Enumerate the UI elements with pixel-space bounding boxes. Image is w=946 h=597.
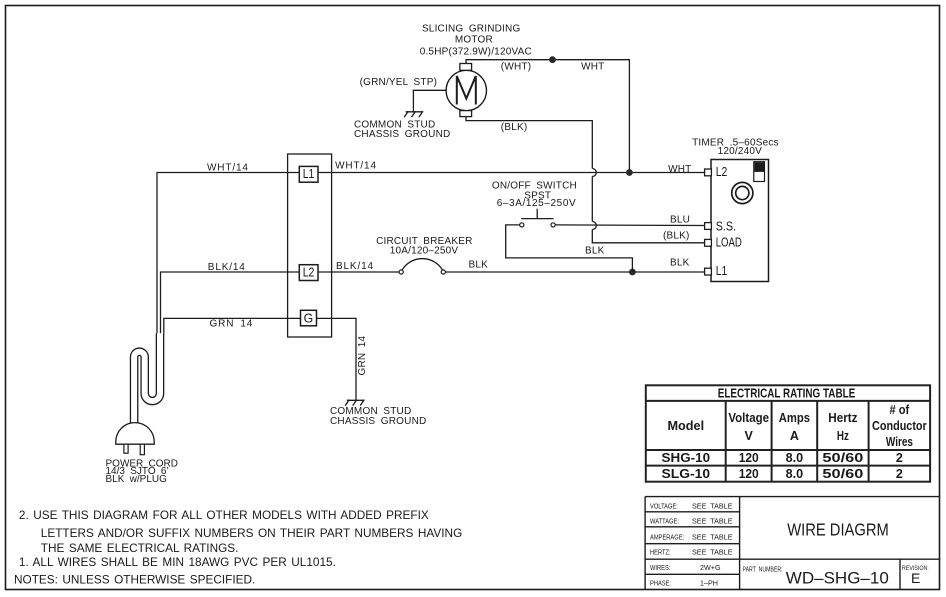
wire BLK/14 left (161, 272, 301, 333)
svg-text:BLK/14: BLK/14 (336, 261, 374, 272)
svg-text:1. ALL WIRES SHALL BE MIN 18AW: 1. ALL WIRES SHALL BE MIN 18AWG PVC PER … (19, 555, 336, 569)
circuit breaker CB1 (399, 259, 445, 275)
svg-text:120/240V: 120/240V (718, 146, 763, 157)
svg-text:0.5HP(372.9W)/120VAC: 0.5HP(372.9W)/120VAC (420, 46, 532, 57)
svg-text:SHG-10: SHG-10 (662, 451, 711, 465)
wire hop over WHT line (592, 169, 596, 177)
svg-text:Conductor: Conductor (872, 419, 927, 433)
circuit breaker labels (376, 236, 472, 257)
svg-text:SEE TABLE: SEE TABLE (692, 547, 733, 556)
svg-text:(WHT): (WHT) (501, 62, 531, 73)
svg-text:WD–SHG–10: WD–SHG–10 (786, 568, 889, 587)
svg-text:LOAD: LOAD (716, 236, 742, 250)
svg-text:SLICING GRINDING: SLICING GRINDING (422, 23, 521, 34)
svg-text:E: E (911, 570, 920, 586)
svg-text:PHASE:: PHASE: (650, 580, 671, 588)
junction dot on WHT wire (549, 56, 556, 63)
label common stud chassis ground (G) (330, 406, 426, 427)
chassis ground symbol (G) (345, 400, 364, 406)
motor BLK wire with hops (466, 117, 592, 169)
svg-text:BLK: BLK (585, 246, 605, 257)
svg-text:L2: L2 (716, 165, 728, 179)
svg-text:(BLK): (BLK) (663, 231, 690, 242)
on/off switch S1 (520, 209, 556, 227)
title block spec labels (650, 502, 929, 588)
svg-text:HERTZ:: HERTZ: (650, 549, 671, 557)
svg-text:NOTES: UNLESS OTHERWISE SPECIF: NOTES: UNLESS OTHERWISE SPECIFIED. (14, 572, 255, 586)
timer indicator (754, 162, 765, 182)
svg-text:SLG-10: SLG-10 (662, 467, 711, 481)
timer T1 (705, 160, 769, 282)
timer terminal labels (716, 165, 742, 278)
power cord label (106, 458, 179, 485)
svg-text:Voltage: Voltage (728, 411, 769, 425)
label common stud chassis ground (motor) (354, 120, 450, 140)
svg-text:BLU: BLU (670, 214, 690, 225)
svg-text:Model: Model (668, 419, 705, 433)
svg-text:AMPERAGE:: AMPERAGE: (650, 534, 684, 542)
wire breaker to timer L1 (446, 271, 705, 273)
junction dot BLK line (629, 269, 636, 276)
svg-text:V: V (745, 429, 754, 443)
svg-text:ELECTRICAL RATING TABLE: ELECTRICAL RATING TABLE (718, 387, 856, 401)
svg-text:GRN 14: GRN 14 (210, 319, 254, 330)
plug (116, 423, 154, 455)
svg-text:WIRES:: WIRES: (650, 565, 671, 573)
switch labels (492, 181, 577, 209)
svg-text:THE SAME ELECTRICAL RATINGS.: THE SAME ELECTRICAL RATINGS. (41, 541, 239, 555)
svg-text:WATTAGE:: WATTAGE: (650, 518, 679, 526)
svg-text:120: 120 (739, 451, 759, 465)
electrical rating table (646, 385, 930, 481)
svg-text:WHT: WHT (581, 62, 604, 73)
title block (645, 497, 939, 590)
svg-text:BLK: BLK (670, 258, 690, 269)
svg-text:GRN 14: GRN 14 (357, 335, 368, 375)
svg-text:50/60: 50/60 (822, 451, 863, 465)
svg-text:L1: L1 (716, 264, 728, 278)
wire switch left to BLK junction (506, 225, 633, 272)
notes text (14, 508, 462, 586)
svg-text:(GRN/YEL STP): (GRN/YEL STP) (360, 77, 438, 88)
wire WHT/14 left (157, 173, 300, 334)
svg-text:L1: L1 (303, 166, 315, 181)
svg-text:WHT/14: WHT/14 (335, 160, 377, 171)
svg-text:2: 2 (896, 467, 903, 481)
motor title text (420, 23, 532, 57)
svg-text:VOLTAGE:: VOLTAGE: (650, 503, 678, 511)
svg-text:2. USE THIS DIAGRAM FOR ALL OT: 2. USE THIS DIAGRAM FOR ALL OTHER MODELS… (19, 508, 429, 522)
svg-text:CHASSIS GROUND: CHASSIS GROUND (354, 129, 450, 140)
svg-text:CHASSIS GROUND: CHASSIS GROUND (330, 416, 426, 427)
motor U1 (446, 64, 486, 117)
svg-text:50/60: 50/60 (822, 467, 863, 481)
wire GRN 14 left (164, 318, 301, 333)
G ground wire (317, 318, 357, 400)
svg-text:120: 120 (739, 467, 759, 481)
svg-text:Hertz: Hertz (828, 411, 857, 425)
svg-text:PART NUMBER:: PART NUMBER: (743, 566, 783, 574)
svg-text:SEE TABLE: SEE TABLE (692, 516, 733, 525)
svg-text:G: G (304, 311, 314, 325)
terminal block (288, 154, 332, 337)
svg-text:S.S.: S.S. (716, 218, 736, 233)
svg-text:WHT/14: WHT/14 (207, 163, 249, 174)
svg-text:BLK w/PLUG: BLK w/PLUG (106, 474, 168, 485)
svg-text:Wires: Wires (886, 435, 913, 449)
svg-text:WHT: WHT (668, 164, 691, 175)
svg-text:A: A (790, 429, 799, 443)
svg-text:SEE TABLE: SEE TABLE (692, 502, 733, 511)
svg-text:10A/120–250V: 10A/120–250V (390, 246, 459, 257)
svg-text:LETTERS AND/OR SUFFIX NUMBERS: LETTERS AND/OR SUFFIX NUMBERS ON THEIR P… (41, 526, 462, 540)
chassis ground symbol (motor) (404, 111, 423, 117)
svg-text:(BLK): (BLK) (501, 122, 528, 133)
svg-text:6–3A/125–250V: 6–3A/125–250V (497, 198, 577, 209)
svg-text:8.0: 8.0 (786, 467, 804, 481)
junction dot WHT to L1 line (626, 169, 633, 176)
motor WHT wire (466, 60, 629, 173)
svg-text:# of: # of (890, 403, 910, 417)
power cord (134, 333, 160, 423)
svg-text:WIRE DIAGRM: WIRE DIAGRM (787, 520, 889, 540)
timer dial (732, 182, 753, 203)
svg-text:Hz: Hz (837, 429, 849, 443)
svg-text:1–PH: 1–PH (700, 578, 718, 587)
svg-text:2: 2 (896, 451, 903, 465)
wire switch right to timer SS (BLU) (555, 224, 705, 227)
svg-text:BLK: BLK (469, 260, 489, 271)
svg-text:8.0: 8.0 (786, 451, 804, 465)
svg-text:MOTOR: MOTOR (455, 34, 493, 45)
motor ground wire (413, 90, 446, 112)
wire L2 to breaker (318, 271, 399, 273)
wire hop over BLU line (592, 222, 596, 230)
svg-text:2W+G: 2W+G (700, 563, 721, 572)
svg-text:SEE TABLE: SEE TABLE (692, 532, 733, 541)
wire L1 to timer L2 (318, 172, 705, 174)
svg-text:L2: L2 (303, 265, 315, 280)
svg-text:BLK/14: BLK/14 (208, 262, 246, 273)
svg-text:Amps: Amps (779, 411, 810, 425)
